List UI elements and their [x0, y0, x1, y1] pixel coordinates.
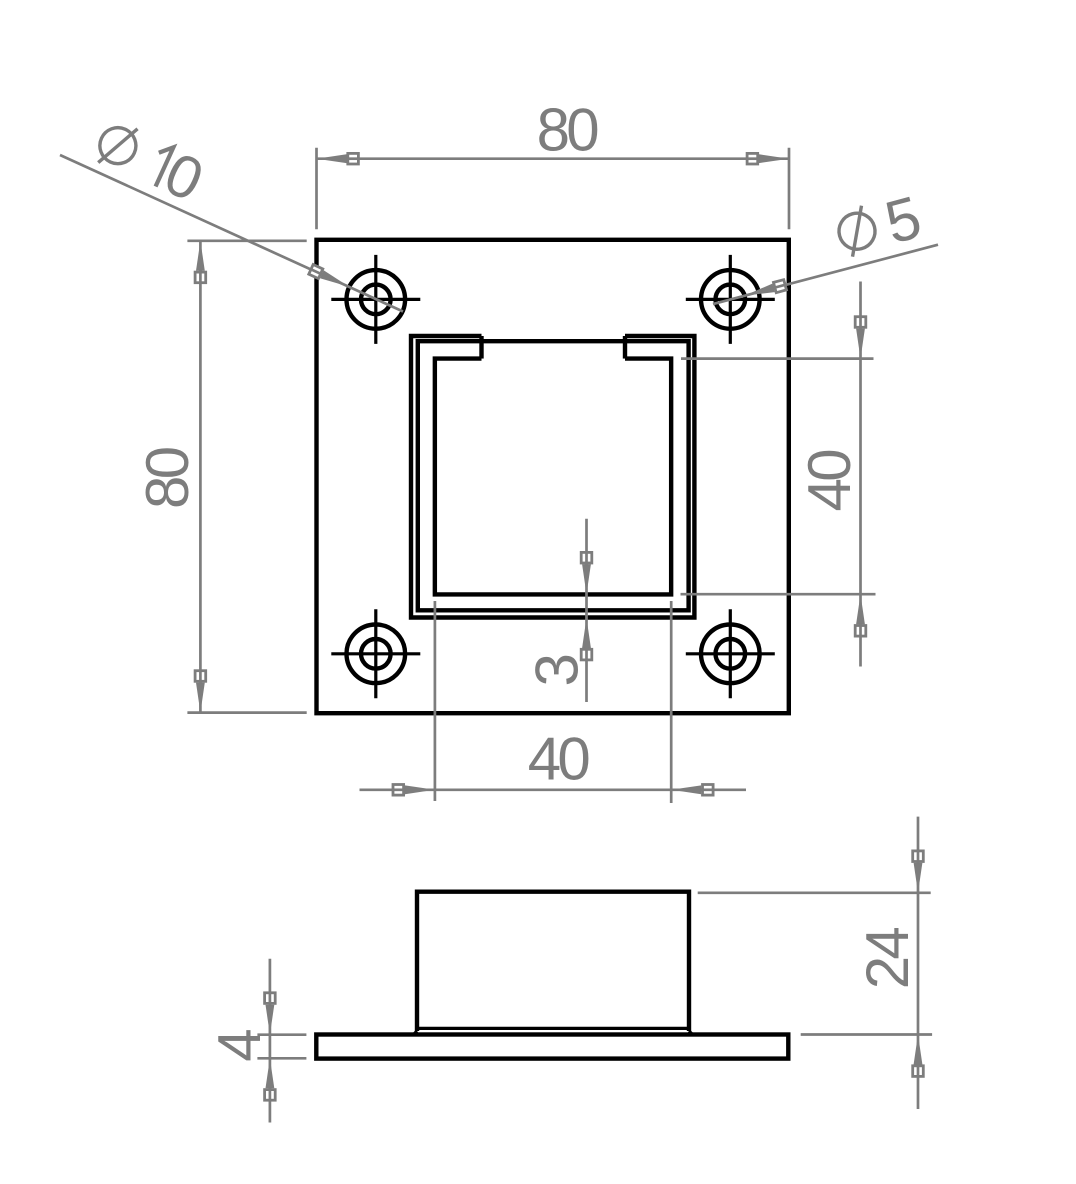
dimension 80 top: arrows — [317, 153, 360, 164]
bore square (40) with top gap — [435, 359, 671, 595]
hole bottom-left — [331, 609, 420, 698]
slot tab edge left — [479, 336, 483, 359]
side view boss base flare left — [414, 1031, 417, 1034]
boss square (46) — [418, 341, 689, 610]
dimension 3 wall: dim line — [585, 519, 588, 702]
leader diameter 5: arrow — [743, 279, 787, 300]
hole bottom-right — [686, 609, 775, 698]
leader diameter 10: arrow — [308, 264, 352, 291]
boss outer flare square (48) with top slot gap — [411, 336, 694, 618]
dimension 80 left: arrows — [195, 241, 206, 284]
dimension 80 left: extension lines — [187, 241, 306, 713]
plate outline (top view, 80x80 square flange) — [317, 240, 789, 713]
dimension 40 right: arrows — [855, 316, 866, 359]
leader diameter 10: text — [87, 109, 213, 215]
dimension 4 side: extension lines — [257, 959, 306, 1123]
dimension 80 top: extension lines — [317, 148, 790, 230]
slot tab edge right — [623, 336, 627, 359]
svg-text:24: 24 — [854, 928, 921, 990]
dimension 40 right: extension lines — [681, 282, 876, 667]
dimension 24 side: arrows — [913, 850, 924, 893]
svg-text:5: 5 — [878, 183, 928, 256]
hole top-left (counterbore) — [331, 255, 420, 344]
svg-text:4: 4 — [206, 1028, 273, 1061]
leader diameter 5: text — [831, 183, 928, 269]
leader diameter 10: line — [60, 155, 403, 312]
side view boss base tangent line — [417, 1027, 689, 1030]
svg-text:40: 40 — [796, 450, 863, 512]
svg-text:3: 3 — [524, 653, 591, 686]
side view boss outline — [417, 892, 689, 1031]
svg-text:40: 40 — [528, 726, 590, 793]
dimension 40 bottom: arrows — [392, 785, 435, 796]
svg-text:80: 80 — [134, 447, 201, 509]
dimension 3 wall: arrows — [581, 551, 592, 594]
side view boss base flare right — [689, 1031, 692, 1034]
leader diameter 5: line — [713, 245, 938, 304]
dimension 40 bottom: extension lines — [360, 601, 747, 803]
side view plate outline — [316, 1035, 788, 1059]
dimension 24 side: extension lines — [698, 817, 932, 1109]
dimension 4 side: arrows — [265, 992, 276, 1035]
svg-text:80: 80 — [537, 96, 599, 163]
hole top-right — [686, 255, 775, 344]
